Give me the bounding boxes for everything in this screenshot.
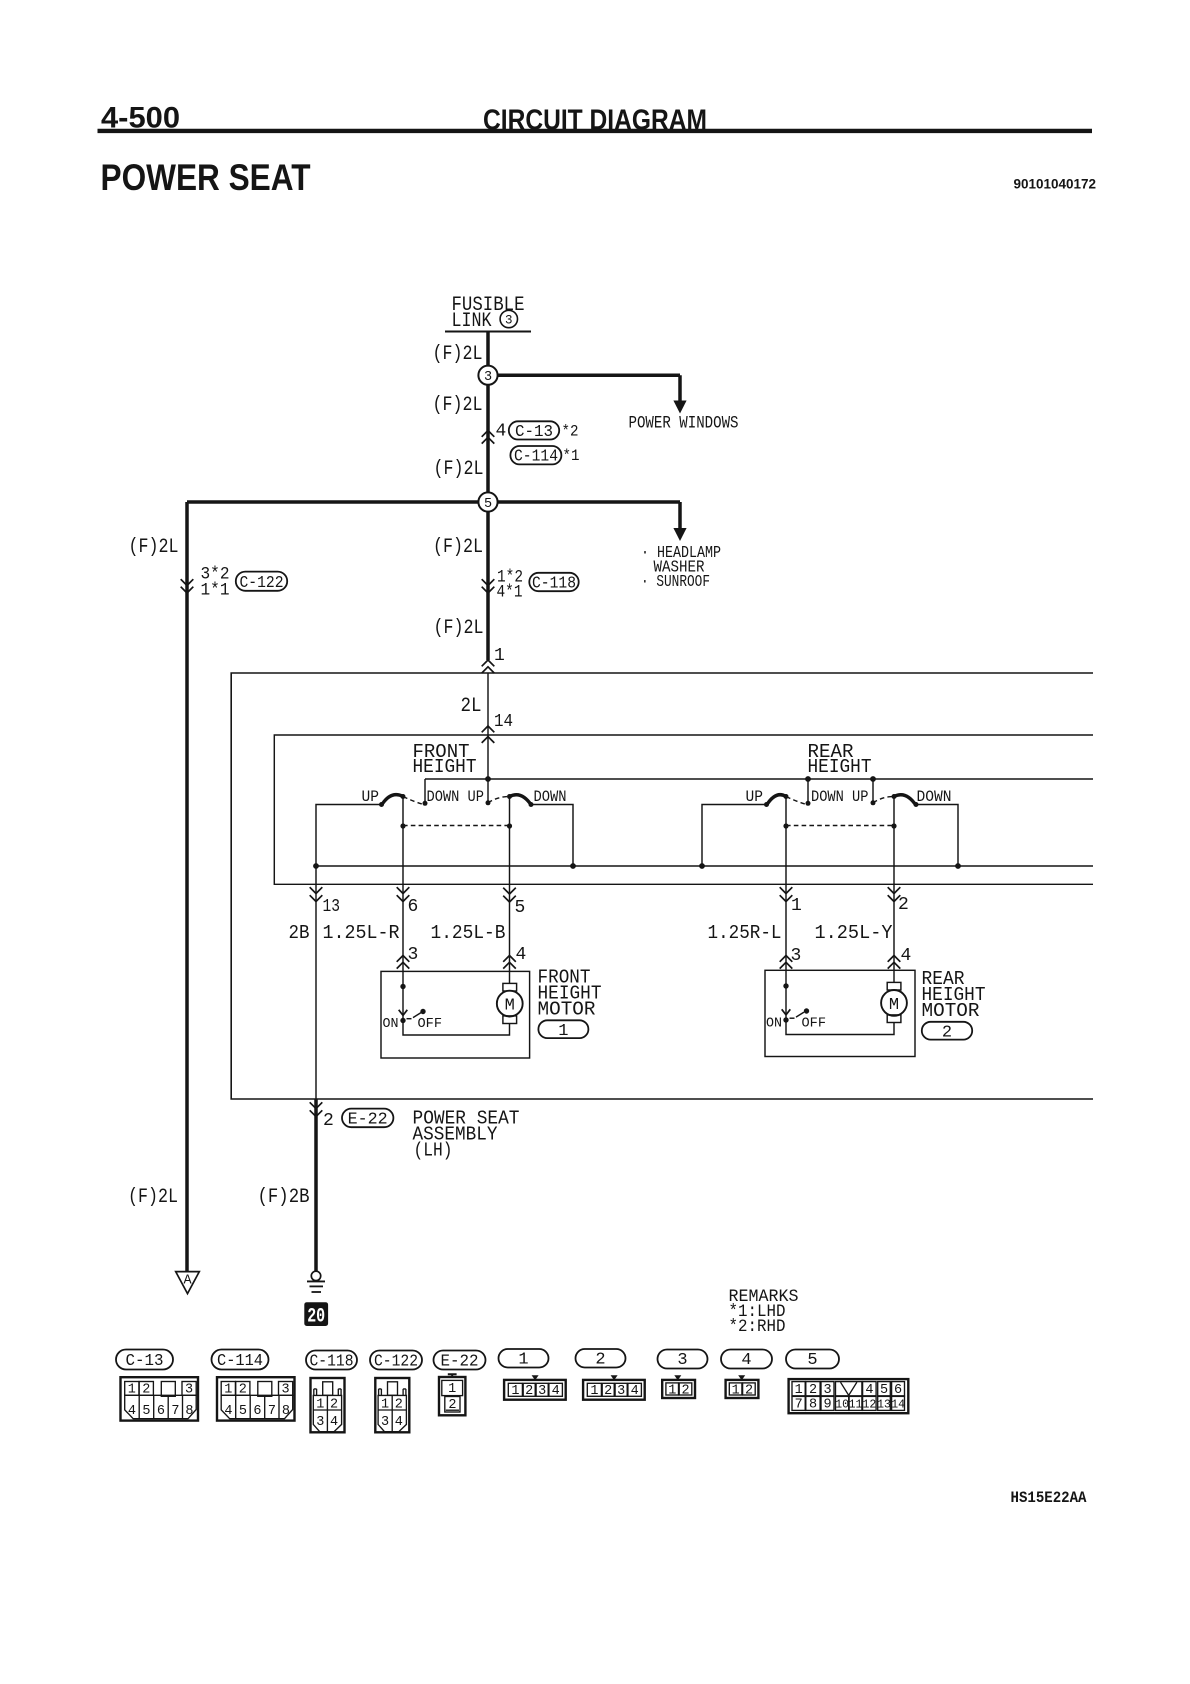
svg-text:(F)2L: (F)2L (129, 536, 179, 559)
connector chevrons front motor pin 4 (503, 956, 516, 962)
connector C-122 label stadium (370, 1351, 422, 1370)
rear switch C movable arm (767, 795, 787, 806)
wire rear up-C contact feed (702, 805, 767, 867)
connector C-118 label stadium (306, 1351, 357, 1370)
linkage dots front (400, 823, 405, 828)
connector C-114 pinout (217, 1377, 295, 1420)
svg-text:C-114: C-114 (217, 1351, 263, 1370)
svg-text:1.25R-L: 1.25R-L (708, 922, 782, 944)
connector 3 pinout (662, 1375, 695, 1398)
rear motor M2 (893, 970, 895, 982)
junction dot (400, 984, 405, 989)
svg-text:HS15E22AA: HS15E22AA (1011, 1489, 1087, 1507)
svg-text:E-22: E-22 (348, 1110, 388, 1129)
wire front motor limit switch feed (402, 971, 404, 1020)
svg-text:2: 2 (142, 1383, 150, 1398)
svg-text:1: 1 (558, 1022, 568, 1041)
svg-text:(F)2L: (F)2L (433, 394, 483, 417)
wire front down-A drop (424, 779, 426, 802)
svg-text:2: 2 (239, 1383, 247, 1398)
wire rear output D pin 2 (893, 797, 895, 971)
wire rear motor bottom (786, 1020, 894, 1035)
connector chevrons rear motor pin 3 (780, 956, 793, 962)
svg-text:1: 1 (448, 1382, 456, 1397)
svg-text:DOWN: DOWN (534, 788, 567, 806)
svg-text:8: 8 (282, 1404, 290, 1419)
svg-text:HEIGHT: HEIGHT (808, 756, 872, 778)
wire front up-A contact feed (316, 805, 382, 867)
svg-text:C-114: C-114 (514, 447, 558, 466)
svg-text:C-118: C-118 (310, 1352, 354, 1371)
svg-text:3: 3 (538, 1384, 546, 1399)
connector C-122 pinout (375, 1378, 409, 1432)
svg-text:1: 1 (128, 1383, 136, 1398)
svg-text:2: 2 (330, 1397, 338, 1412)
wire branch node 5 to left drop (187, 502, 479, 1271)
svg-text:1: 1 (732, 1383, 740, 1398)
svg-text:OFF: OFF (802, 1016, 827, 1032)
svg-text:1: 1 (791, 896, 802, 916)
svg-text:4: 4 (901, 946, 912, 966)
svg-text:M: M (889, 996, 899, 1015)
svg-text:DOWN UP: DOWN UP (811, 788, 869, 806)
wire pin 1 into switch box (487, 673, 489, 779)
svg-text:7: 7 (268, 1404, 276, 1419)
connector 4 label stadium (721, 1350, 772, 1369)
svg-text:4*1: 4*1 (497, 583, 523, 603)
front switch A movable arm (382, 795, 404, 806)
linkage dots rear (783, 823, 788, 828)
svg-text:6: 6 (408, 897, 419, 917)
rear switch C alternate throw dashed (786, 797, 806, 805)
front switch A alternate throw dashed (403, 797, 423, 805)
svg-text:3: 3 (185, 1383, 193, 1398)
ON contact dot (783, 1017, 788, 1022)
limit switch throw tick (407, 1018, 412, 1020)
wire front output A pin 6 (402, 797, 404, 972)
wire front motor bottom (403, 1021, 510, 1036)
svg-text:A: A (183, 1273, 192, 1288)
svg-text:*2:RHD: *2:RHD (729, 1317, 786, 1337)
svg-text:1.25L-R: 1.25L-R (323, 922, 400, 944)
svg-text:5: 5 (880, 1383, 888, 1398)
wire rear down-C drop (807, 779, 809, 802)
connector pass chevrons C-118 (482, 579, 495, 585)
connector C-118 pinout (311, 1378, 345, 1432)
rear switch D alternate throw dashed (873, 796, 894, 802)
ON contact dot (400, 1018, 405, 1023)
svg-text:4: 4 (865, 1383, 873, 1398)
svg-text:3: 3 (484, 370, 492, 385)
svg-text:1: 1 (316, 1397, 324, 1412)
svg-text:C-13: C-13 (126, 1351, 164, 1370)
svg-text:2: 2 (604, 1384, 612, 1399)
limit switch arm arrow (782, 1009, 791, 1015)
wire front down-B contact feed (531, 805, 573, 867)
wire rear up-D drop (872, 779, 874, 802)
svg-text:POWER WINDOWS: POWER WINDOWS (629, 414, 739, 434)
svg-text:4: 4 (128, 1404, 136, 1419)
svg-text:UP: UP (362, 788, 380, 806)
svg-text:1: 1 (224, 1383, 232, 1398)
svg-text:20: 20 (307, 1306, 325, 1329)
svg-text:4: 4 (224, 1404, 232, 1419)
svg-text:ON: ON (383, 1016, 399, 1032)
svg-text:HEIGHT: HEIGHT (413, 756, 477, 778)
svg-text:(F)2L: (F)2L (128, 1186, 178, 1209)
svg-text:3: 3 (823, 1383, 831, 1398)
svg-text:2: 2 (809, 1383, 817, 1398)
connector C-118 label (529, 573, 578, 591)
svg-text:6: 6 (894, 1383, 902, 1398)
svg-text:2: 2 (682, 1383, 690, 1398)
power seat assembly outer box (231, 673, 1093, 1099)
connector chevrons rear motor pin 4 (888, 956, 901, 962)
connector pass chevrons C-122 (181, 579, 194, 585)
svg-text:5: 5 (807, 1351, 817, 1370)
connector 5 pinout (789, 1379, 909, 1413)
fusible link number circle 3 (500, 310, 517, 327)
svg-text:C-122: C-122 (374, 1352, 418, 1371)
limit switch throw arm (413, 1013, 421, 1018)
svg-text:4: 4 (631, 1384, 639, 1399)
svg-text:13: 13 (877, 1398, 891, 1411)
junction rear down contact (805, 776, 811, 782)
svg-text:2: 2 (898, 895, 909, 915)
svg-text:DOWN UP: DOWN UP (427, 788, 485, 806)
connector 3 label stadium (658, 1350, 708, 1369)
wire node 5 down (486, 512, 490, 660)
connector 2 label stadium (576, 1349, 626, 1368)
svg-text:8: 8 (185, 1404, 193, 1419)
connector chevrons pin 6 (397, 887, 410, 893)
svg-text:3: 3 (408, 945, 419, 965)
front linkage dashed (403, 825, 510, 827)
svg-text:C-118: C-118 (532, 574, 576, 593)
connector pass chevrons pin 4 (482, 431, 495, 437)
connector C-13 label (509, 421, 559, 439)
svg-text:3: 3 (677, 1351, 687, 1370)
connector chevrons pin 1 (482, 660, 495, 666)
svg-text:C-13: C-13 (515, 422, 553, 441)
svg-text:(F)2B: (F)2B (258, 1186, 310, 1209)
limit switch throw tick (790, 1017, 795, 1019)
svg-text:1: 1 (590, 1384, 598, 1399)
svg-text:2L: 2L (461, 695, 482, 718)
svg-text:6: 6 (253, 1404, 261, 1419)
svg-text:1*1: 1*1 (201, 581, 230, 601)
connector C-122 label (236, 572, 287, 591)
svg-text:1: 1 (518, 1351, 528, 1370)
svg-text:5: 5 (515, 898, 526, 918)
junction feed node (485, 776, 491, 782)
node 3 (478, 366, 497, 385)
svg-text:3: 3 (617, 1384, 625, 1399)
motor number 2 stadium (922, 1022, 972, 1040)
svg-text:M: M (505, 997, 515, 1016)
svg-text:1: 1 (381, 1397, 389, 1412)
svg-text:4: 4 (330, 1415, 338, 1430)
header rule (98, 129, 1093, 133)
svg-text:1: 1 (668, 1383, 676, 1398)
connector 1 pinout (504, 1375, 566, 1399)
svg-text:ON: ON (766, 1016, 782, 1032)
svg-text:3: 3 (791, 946, 802, 966)
svg-text:(F)2L: (F)2L (433, 536, 483, 559)
OFF contact dot (420, 1009, 425, 1014)
svg-text:5: 5 (239, 1404, 247, 1419)
rear switch D movable arm (894, 795, 916, 806)
rear height motor box (765, 970, 915, 1056)
svg-text:(F)2L: (F)2L (434, 458, 484, 481)
height switch inner box (274, 735, 1093, 884)
svg-text:1: 1 (795, 1383, 803, 1398)
wire common return to pin 13 (315, 866, 317, 1099)
svg-text:2: 2 (525, 1384, 533, 1399)
svg-text:14: 14 (494, 712, 513, 732)
wire front output B pin 5 (509, 797, 511, 972)
svg-text:10: 10 (835, 1398, 849, 1411)
svg-text:· SUNROOF: · SUNROOF (641, 573, 710, 592)
connector chevrons rear pin 1 (780, 887, 793, 893)
limit switch arm arrow (399, 1010, 408, 1016)
connector C-13 pinout (121, 1377, 199, 1420)
svg-text:E-22: E-22 (441, 1352, 479, 1371)
svg-text:3: 3 (316, 1415, 324, 1430)
svg-text:MOTOR: MOTOR (922, 1000, 980, 1022)
svg-text:2: 2 (595, 1351, 605, 1370)
fusible link bus bar (445, 331, 531, 333)
svg-text:*1: *1 (563, 447, 580, 465)
svg-text:C-122: C-122 (240, 573, 284, 592)
svg-text:13: 13 (323, 897, 341, 917)
ground symbol (311, 1271, 320, 1280)
arrowhead headlamp (673, 528, 686, 541)
svg-text:2: 2 (395, 1397, 403, 1412)
arrowhead power windows (673, 401, 686, 414)
svg-text:3: 3 (505, 313, 513, 327)
svg-text:5: 5 (142, 1404, 150, 1419)
connector chevrons rear pin 2 (888, 887, 901, 893)
svg-text:14: 14 (891, 1398, 905, 1411)
svg-text:UP: UP (746, 788, 764, 806)
svg-text:3: 3 (381, 1415, 389, 1430)
svg-text:*2: *2 (562, 423, 579, 441)
connector C-114 label stadium (212, 1350, 269, 1370)
svg-text:2: 2 (942, 1024, 952, 1043)
svg-text:4: 4 (552, 1384, 560, 1399)
svg-text:6: 6 (157, 1404, 165, 1419)
wire node 3 to node 5 (486, 385, 490, 493)
wire rear motor limit switch feed (785, 970, 787, 1020)
svg-text:4: 4 (395, 1415, 403, 1430)
wire branch node 5 to headlamp washer / sunroof (497, 502, 680, 529)
connector E-22 label stadium (434, 1351, 486, 1370)
svg-text:4: 4 (496, 422, 507, 442)
front switch B alternate throw dashed (488, 796, 510, 802)
svg-text:1.25L-B: 1.25L-B (431, 922, 506, 944)
svg-text:7: 7 (795, 1397, 803, 1412)
svg-text:1.25L-Y: 1.25L-Y (815, 922, 894, 944)
svg-text:(LH): (LH) (414, 1140, 453, 1162)
off-page reference A triangle (176, 1272, 200, 1294)
svg-text:5: 5 (484, 497, 492, 512)
connector 5 label stadium (786, 1350, 839, 1369)
svg-text:9: 9 (823, 1397, 831, 1412)
junction dot (783, 983, 788, 988)
wire fusible link to node 3 (486, 332, 490, 366)
svg-text:12: 12 (862, 1398, 876, 1411)
OFF contact dot (804, 1008, 809, 1013)
svg-text:LINK: LINK (452, 310, 492, 333)
svg-text:2: 2 (745, 1383, 753, 1398)
connector 1 label stadium (499, 1349, 549, 1368)
front switch B movable arm (510, 795, 532, 806)
svg-text:(F)2L: (F)2L (433, 343, 483, 366)
junction dots common line (313, 863, 319, 869)
connector E-22 label (342, 1109, 393, 1128)
wire branch from node 3 to power windows (497, 375, 680, 401)
svg-text:11: 11 (849, 1398, 863, 1411)
connector 2 pinout (583, 1375, 645, 1399)
contact dots rear switch (764, 802, 769, 807)
svg-text:MOTOR: MOTOR (538, 999, 596, 1021)
svg-text:7: 7 (171, 1404, 179, 1419)
ground number 20 block (304, 1302, 328, 1326)
svg-text:90101040172: 90101040172 (1014, 176, 1097, 192)
switch common return line (316, 865, 1093, 867)
connector chevrons pin 5 (503, 888, 516, 894)
svg-text:4: 4 (516, 945, 527, 965)
svg-text:8: 8 (809, 1397, 817, 1412)
svg-text:4: 4 (741, 1351, 751, 1370)
svg-text:(F)2L: (F)2L (434, 617, 484, 640)
wire front up-B drop (487, 779, 489, 802)
svg-text:2B: 2B (289, 922, 310, 944)
svg-text:2: 2 (323, 1111, 334, 1131)
connector chevrons pin 14 (482, 726, 495, 732)
connector chevrons front motor pin 3 (397, 956, 410, 962)
front motor M1 (509, 971, 511, 983)
wire pin 2 to ground (314, 1099, 318, 1271)
node 5 (478, 492, 497, 511)
connector C-114 label (510, 446, 561, 464)
svg-text:2: 2 (448, 1398, 456, 1413)
wire rear output C pin 1 (785, 797, 787, 971)
connector chevrons pin 13 (310, 887, 323, 893)
motor number 1 stadium (538, 1020, 588, 1038)
front height motor box (381, 971, 530, 1058)
connector 4 pinout (726, 1375, 759, 1398)
connector C-13 label stadium (116, 1350, 173, 1370)
junction rear up contact (870, 776, 876, 782)
wire rear down-D contact feed (916, 805, 958, 867)
connector chevrons pin 2 E-22 (310, 1102, 323, 1108)
contact dots front switch (379, 802, 384, 807)
limit switch throw arm (796, 1012, 804, 1017)
switch feed line (425, 778, 1093, 780)
rear linkage dashed (786, 825, 894, 827)
svg-text:POWER SEAT: POWER SEAT (101, 157, 311, 198)
connector E-22 pinout (439, 1374, 465, 1415)
svg-text:DOWN: DOWN (917, 788, 952, 806)
svg-text:1: 1 (494, 646, 505, 666)
svg-text:1: 1 (511, 1384, 519, 1399)
svg-text:3: 3 (282, 1383, 290, 1398)
svg-text:OFF: OFF (418, 1016, 443, 1032)
